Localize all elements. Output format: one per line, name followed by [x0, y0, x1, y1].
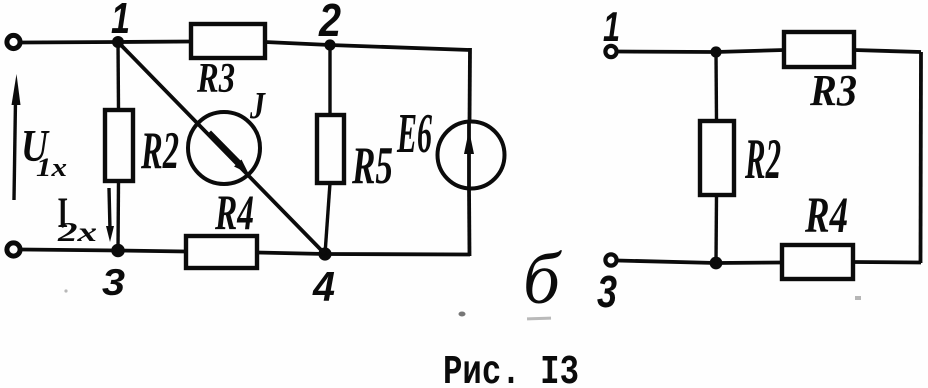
wire junction top to R2: [714, 52, 718, 121]
arrow U1x up: [12, 74, 21, 200]
svg-text:2x: 2x: [57, 217, 98, 247]
svg-text:R2: R2: [140, 122, 179, 180]
resistor R4 right: [782, 245, 853, 279]
wire node3 to terminal bottom-left: [22, 250, 118, 251]
svg-text:3: 3: [102, 261, 125, 303]
scan speck: [459, 312, 466, 317]
node 3: [111, 244, 125, 258]
terminal 1 right circuit: [605, 46, 616, 57]
resistor R2 right: [700, 121, 734, 195]
svg-text:2: 2: [318, 0, 341, 46]
svg-text:1x: 1x: [36, 153, 67, 182]
wire node2 to top-right corner: [330, 45, 470, 50]
terminal top-left: [7, 35, 20, 48]
scan tick right: [855, 296, 861, 300]
current source arrow: [209, 133, 240, 165]
wire node4 to R4: [257, 253, 325, 255]
resistor R3 right: [784, 32, 854, 67]
wire bottom corner to R4: [853, 260, 921, 264]
wire R5 to node 4: [325, 183, 330, 254]
wire right edge: [919, 52, 923, 263]
node 4: [318, 247, 331, 260]
svg-text:1: 1: [603, 3, 620, 50]
svg-text:J: J: [249, 85, 266, 127]
wire R3 to right corner: [854, 50, 921, 52]
wire junction to terminal 3: [617, 261, 716, 264]
svg-text:Рис. I3: Рис. I3: [443, 350, 579, 388]
resistor R2: [105, 110, 133, 181]
wire node1 down to R2: [116, 42, 120, 110]
wire right edge bottom: [467, 187, 471, 256]
terminal bottom-left: [7, 243, 20, 256]
scan dot left: [64, 289, 67, 292]
E6 internal arrow: [467, 122, 471, 188]
svg-text:R3: R3: [196, 55, 235, 102]
wire R3 to node 2: [265, 42, 330, 45]
node 2: [324, 39, 335, 50]
current source J circle: [188, 112, 260, 184]
resistor R5: [317, 115, 344, 183]
svg-text:E6: E6: [396, 103, 432, 165]
wire node2 down to R5: [328, 45, 331, 115]
svg-text:б: б: [523, 238, 563, 319]
svg-text:R4: R4: [214, 185, 254, 240]
resistor R4: [186, 236, 257, 268]
node 1: [112, 36, 124, 48]
svg-text:R3: R3: [809, 66, 857, 115]
wire terminal1 to junction: [617, 50, 716, 54]
terminal 3 right circuit: [605, 254, 616, 265]
svg-text:R2: R2: [744, 128, 781, 191]
svg-text:R5: R5: [351, 137, 393, 195]
wire right edge top: [468, 48, 472, 123]
wire terminal to node 1: [21, 40, 118, 44]
source E6: [438, 122, 505, 189]
junction bottom: [710, 257, 723, 270]
diagonal wire node1 to node 4: [118, 42, 325, 254]
wire R4 to junction bottom: [716, 261, 782, 265]
svg-text:4: 4: [312, 263, 335, 310]
resistor R3: [191, 24, 265, 58]
arrow I2x down: [106, 188, 114, 242]
svg-text:1: 1: [111, 0, 130, 43]
wire R4 to node 3: [118, 251, 186, 252]
junction top: [710, 46, 721, 57]
wire node1 to R3: [118, 40, 191, 44]
wire R2 to node 3: [116, 181, 120, 251]
wire R2 to junction bottom: [714, 195, 718, 263]
wire junction to R3: [716, 50, 784, 52]
wire bottom-right corner to node 4: [325, 252, 470, 256]
svg-text:R4: R4: [804, 187, 848, 243]
svg-text:3: 3: [597, 266, 617, 317]
scan smudge under b: [527, 317, 551, 321]
